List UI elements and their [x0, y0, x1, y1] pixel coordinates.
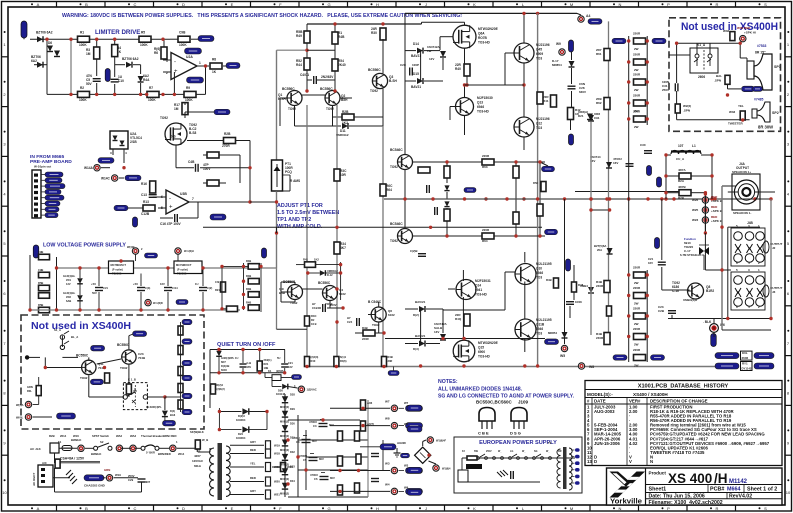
wire right trunk x771 — [770, 199, 772, 319]
capacitor C27 — [566, 302, 574, 305]
wire prim top — [209, 448, 211, 452]
speaker SP2 horn — [757, 102, 770, 122]
wire r77 right — [691, 175, 712, 177]
wire q13 base — [450, 106, 456, 108]
transistor Q19 BC546C — [371, 307, 386, 322]
wire nb top stub — [61, 336, 63, 347]
op-amp U2A — [171, 53, 197, 80]
wire nb v1 — [44, 357, 46, 367]
svg-text:W7: W7 — [404, 401, 409, 405]
svg-text:JUN-15-2006: JUN-15-2006 — [594, 441, 620, 446]
terminal W14C — [112, 175, 118, 181]
mosfet Q6 MTW32N20E — [453, 25, 476, 48]
svg-text:LG: LG — [510, 450, 513, 453]
capacitor C5 — [93, 79, 101, 82]
svg-text:C4: C4 — [296, 440, 300, 444]
svg-text:VER#: VER# — [629, 399, 641, 404]
capacitor group near W3 — [371, 454, 379, 482]
terminal W26 — [702, 197, 708, 203]
terminal W6 BLK — [710, 324, 719, 333]
capacitor C44 — [164, 288, 172, 291]
resistor R48 — [572, 282, 577, 292]
junction top net joins — [306, 263, 342, 275]
svg-text:GRY: GRY — [250, 440, 256, 444]
svg-text:E: E — [231, 506, 234, 511]
wire trunk x591 — [590, 122, 592, 335]
terminal W23 — [702, 217, 708, 223]
wire q4 out — [413, 161, 546, 163]
resistor R2 — [78, 91, 90, 97]
resistor R76 — [604, 333, 610, 345]
svg-text:U2A: U2A — [186, 55, 193, 59]
svg-text:C(2)B: C(2)B — [410, 249, 417, 253]
svg-text:TO3: TO3 — [536, 126, 542, 130]
svg-text:C9B: C9B — [38, 250, 43, 254]
transistor Q2 — [325, 91, 340, 106]
optocoupler U2 — [110, 131, 128, 149]
svg-text:W7: W7 — [385, 399, 390, 403]
svg-text:B-SH: B-SH — [389, 79, 397, 83]
wire w16h dn — [177, 254, 179, 261]
wire q7 emit — [523, 63, 525, 85]
wire lower wires3 — [405, 343, 418, 345]
wire d07 — [218, 350, 220, 352]
net label qt pill — [292, 375, 302, 380]
diode D11 — [342, 123, 348, 129]
fuse F1 — [62, 446, 72, 451]
AC jack box — [50, 443, 59, 453]
svg-text:D14: D14 — [413, 42, 419, 46]
resistor R41b — [305, 262, 316, 268]
svg-text:R64: R64 — [482, 239, 488, 243]
svg-text:220R: 220R — [633, 94, 641, 98]
wire d11 wire — [295, 125, 342, 127]
wire q17 emit — [294, 300, 296, 303]
svg-text:BRN/ RED: BRN/ RED — [163, 434, 177, 438]
wire c8 — [242, 350, 244, 364]
wire q11 emit — [524, 338, 526, 352]
svg-text:PCB#: PCB# — [710, 487, 724, 493]
svg-text:BC556C: BC556C — [320, 87, 333, 91]
wire x516 seg — [515, 162, 517, 166]
transistor Q4 BC546C — [398, 155, 413, 170]
svg-text:XS 400: XS 400 — [668, 471, 712, 486]
svg-text:N: N — [619, 2, 622, 7]
net label in stub — [114, 205, 128, 211]
wire d26q — [272, 386, 282, 388]
wire ml bottom — [222, 308, 226, 310]
svg-text:1N4004: 1N4004 — [236, 418, 246, 422]
junction y210 — [589, 208, 592, 211]
svg-text:A: A — [37, 506, 40, 511]
svg-text:A0(7): A0(7) — [367, 422, 374, 426]
svg-text:BRN/RED: BRN/RED — [158, 452, 171, 456]
svg-text:.SPN: .SPN — [683, 109, 690, 113]
mosfet Q15 MTW32N20E — [453, 340, 475, 362]
wire rect rail2 — [297, 415, 299, 497]
svg-text:100K: 100K — [148, 98, 156, 102]
svg-text:8R 30W: 8R 30W — [758, 125, 773, 130]
svg-text:RY1: RY1 — [742, 362, 748, 366]
wire opto pin3 drop — [112, 149, 114, 155]
terminal W4 — [578, 16, 584, 22]
euro labels row — [462, 450, 562, 453]
svg-text:5U: 5U — [277, 356, 280, 360]
svg-text:W19: W19 — [115, 473, 121, 477]
svg-text:R21: R21 — [264, 362, 269, 366]
svg-text:WARNING: 180VDC IS BETWEEN POW: WARNING: 180VDC IS BETWEEN POWER SUPPLIE… — [62, 13, 462, 19]
svg-text:BAL: BAL — [716, 74, 722, 78]
svg-text:W-1(6)D: W-1(6)D — [153, 301, 163, 305]
wire main bus y199 — [384, 198, 771, 200]
resistor R46 22R — [464, 314, 470, 326]
junction y13 — [536, 12, 539, 15]
title block frame — [607, 468, 783, 505]
box Not used in XS400H (left) — [21, 315, 204, 429]
wire c17 left — [318, 307, 321, 309]
svg-text:BZT06 6A2: BZT06 6A2 — [122, 57, 139, 61]
wire PT1 wiper — [283, 174, 290, 176]
diode D17 MR854 — [569, 61, 575, 67]
resistor R41 22R — [551, 95, 557, 107]
svg-text:R21: R21 — [215, 288, 220, 292]
resistor x516 a — [513, 166, 519, 178]
wire d24 r — [250, 429, 268, 431]
transistor Q1 — [287, 91, 302, 106]
wire x276 to top — [277, 49, 308, 51]
svg-text:NOTES:: NOTES: — [438, 379, 458, 385]
svg-text:W33: W33 — [729, 110, 736, 114]
speaker SP1 horn — [754, 54, 772, 90]
svg-text:6A2: 6A2 — [31, 59, 37, 63]
svg-text:6946: 6946 — [536, 271, 543, 275]
svg-text:Q15: Q15 — [478, 346, 484, 350]
resistor R3 x96 — [94, 47, 100, 59]
svg-text:D28: D28 — [290, 393, 295, 397]
svg-text:1U: 1U — [195, 282, 198, 286]
transistor Q8 MJ21196 — [514, 117, 534, 137]
diode x447 — [444, 185, 449, 190]
net ladder pills nb — [178, 319, 192, 415]
svg-text:2W: 2W — [634, 281, 639, 285]
terminal W9 — [559, 49, 565, 55]
svg-text:UMB4: UMB4 — [580, 284, 588, 288]
wire box relay drop1 — [696, 43, 698, 54]
wire c27 dn — [569, 306, 571, 318]
svg-text:4R7A: 4R7A — [678, 168, 687, 172]
wire mosfet drop — [175, 145, 177, 168]
capacitor C17 — [323, 304, 326, 312]
wire lv rail2 — [56, 257, 58, 310]
wire bridge link2 — [423, 440, 426, 442]
wire k1b v — [164, 397, 166, 410]
title block row lines — [646, 485, 783, 499]
wire gate wire — [440, 36, 453, 38]
svg-text:D(3): D(3) — [413, 347, 419, 351]
wire box left rail2 — [676, 91, 678, 120]
svg-text:R4B: R4B — [246, 301, 251, 305]
wire mosfet top — [422, 21, 465, 23]
svg-text:120VAC: 120VAC — [192, 459, 204, 463]
wire mos top drop — [464, 22, 466, 25]
svg-text:1K: 1K — [212, 70, 217, 74]
junction lower rails — [419, 337, 583, 368]
svg-text:UMR4G2: UMR4G2 — [336, 133, 349, 137]
wire q14 coll — [462, 270, 464, 281]
svg-text:100N: 100N — [575, 300, 582, 304]
wire q7 coll — [523, 13, 525, 43]
wire U3B out to trunk — [250, 201, 277, 203]
junction bridge — [427, 454, 430, 457]
wire q3 drop2 — [382, 45, 384, 73]
wire chassis link2 — [114, 477, 138, 479]
wire r43 left — [355, 332, 363, 334]
svg-text:100K: 100K — [79, 43, 87, 47]
wire mos src — [464, 48, 466, 64]
wire C18 right — [200, 167, 250, 169]
junction output upper joins — [463, 83, 526, 86]
junction PT1 bottom — [275, 231, 278, 234]
svg-text:SPST Switch: SPST Switch — [92, 434, 109, 438]
svg-text:W25: W25 — [692, 208, 699, 212]
svg-text:X1001.PCB_DATABASE_HISTORY: X1001.PCB_DATABASE_HISTORY — [638, 384, 729, 390]
net label nb pill top — [91, 345, 105, 351]
junction vas nodes — [445, 160, 541, 237]
resistor A06 — [361, 400, 366, 410]
svg-text:R5B: R5B — [38, 303, 43, 307]
net label TP1 — [542, 166, 555, 172]
svg-text:BC556C: BC556C — [282, 87, 295, 91]
svg-text:EUROPEAN POWER SUPPLY: EUROPEAN POWER SUPPLY — [479, 440, 557, 446]
svg-text:CSA=8A / 125V: CSA=8A / 125V — [60, 457, 85, 461]
net label pill x264 — [262, 248, 267, 258]
svg-text:MTW32N20E: MTW32N20E — [478, 27, 499, 31]
wire q7 base vert — [504, 53, 506, 85]
svg-text:BC546C: BC546C — [390, 222, 403, 226]
junction ml joins — [220, 265, 262, 311]
svg-text:S2: S2 — [100, 440, 104, 444]
svg-text:6900: 6900 — [478, 350, 485, 354]
svg-text:BR: BR — [558, 450, 562, 453]
resistor R58 — [418, 167, 430, 173]
svg-text:TO3: TO3 — [536, 332, 542, 336]
resistor R43 — [363, 330, 375, 336]
wire right trunk x727 — [727, 227, 729, 318]
svg-text:(2)4(3): (2)4(3) — [311, 355, 319, 359]
svg-text:16V: 16V — [247, 365, 252, 369]
wire chassis link — [103, 477, 106, 479]
net label sp pill — [742, 86, 755, 92]
transistor Q7 MJ21196 — [514, 43, 534, 63]
svg-text:R0L: R0L — [27, 389, 32, 393]
resistor R61 — [604, 49, 610, 61]
transistor Qn1 BC556C — [82, 360, 96, 374]
svg-text:+5U: +5U — [133, 282, 138, 286]
svg-text:J3: J3 — [772, 290, 776, 294]
wire r78 right — [691, 192, 705, 194]
svg-text:B: B — [85, 506, 88, 511]
net label nb wide pill — [57, 413, 76, 419]
contact left stub — [25, 355, 29, 359]
fuse underline — [60, 461, 100, 463]
net label x575 vert — [566, 259, 571, 271]
svg-text:220R: 220R — [633, 327, 641, 331]
svg-text:K: K — [473, 506, 476, 511]
svg-text:D(4): D(4) — [170, 409, 175, 413]
svg-text:R4O: R4O — [311, 314, 316, 318]
connector J4B block — [731, 228, 765, 266]
regulator U4 MC78M15CT — [109, 261, 134, 274]
net label W4 pill — [588, 19, 602, 25]
wire r31 wires — [333, 116, 343, 118]
wire agnd link — [360, 446, 380, 448]
svg-text:220R: 220R — [482, 228, 490, 232]
resistor column lv C9B-R group — [39, 254, 50, 313]
wire y310 seg — [443, 309, 505, 311]
transformer T1 primary — [210, 448, 215, 456]
package TO92 J109 — [511, 408, 527, 422]
wire rect rail1 — [284, 394, 286, 497]
svg-text:1K2: 1K2 — [314, 258, 319, 262]
diode D07 — [216, 351, 222, 357]
wire jack pin2 — [728, 191, 738, 193]
svg-text:W5: W5 — [560, 354, 565, 358]
svg-text:4700U: 4700U — [292, 436, 300, 440]
wire q3 drop — [382, 39, 384, 45]
wire trunk x661 — [661, 199, 663, 260]
svg-text:BL_A: BL_A — [71, 335, 78, 339]
svg-text:6909: 6909 — [536, 52, 543, 56]
svg-text:1K2: 1K2 — [342, 121, 348, 125]
svg-text:MJF15030: MJF15030 — [477, 96, 493, 100]
svg-text:C/14: C/14 — [172, 286, 178, 290]
wire branch y64 — [115, 64, 125, 66]
wire q9 out — [413, 235, 546, 237]
svg-text:BZT06 6A2: BZT06 6A2 — [36, 31, 53, 35]
net label pill v2 — [657, 177, 662, 187]
net label pill v1 — [647, 166, 652, 176]
svg-text:K0L: K0L — [742, 351, 748, 355]
contact BL_A a — [60, 335, 64, 339]
resistor ladder mid — [248, 264, 259, 311]
svg-text:SPEAKON 1-: SPEAKON 1- — [733, 211, 751, 215]
svg-text:Q11B: Q11B — [536, 323, 545, 327]
diode D15 — [417, 78, 423, 84]
capacitor C29 — [138, 479, 146, 482]
label IN FROM M665 PRE-AMP BOARD — [30, 154, 72, 165]
resistor A07 — [361, 421, 366, 431]
wire zener drop — [442, 58, 444, 70]
capacitor C43 — [137, 288, 145, 291]
junction rect nodes — [286, 418, 324, 485]
svg-text:YEL: YEL — [250, 462, 256, 466]
wire q17 loop h — [281, 281, 295, 283]
svg-text:R2B: R2B — [678, 196, 685, 200]
net label pill x571 — [569, 134, 574, 145]
svg-text:W32: W32 — [723, 29, 730, 33]
wire x705 lower — [704, 233, 706, 270]
wire q17q18 link — [303, 288, 323, 290]
euro switch contacts row — [469, 454, 552, 459]
terminal W25 — [702, 207, 708, 213]
svg-text:W8: W8 — [589, 365, 594, 369]
resistor Rm1 — [221, 282, 226, 292]
resistor R5 top — [139, 36, 151, 42]
junction nb1 — [44, 366, 47, 369]
resistor col x447 a — [444, 166, 450, 178]
wire c43 — [140, 274, 142, 287]
svg-text:D-12: D-12 — [327, 273, 333, 277]
wire W14C wire — [119, 177, 124, 179]
wire x661 low — [661, 267, 663, 290]
svg-text:RO7B: RO7B — [478, 36, 488, 40]
wire limiter bottom bus — [47, 93, 206, 95]
diode D23 BAV21 — [419, 341, 425, 347]
trimpot PT1 — [272, 160, 283, 191]
svg-text:R4B: R4B — [546, 278, 552, 282]
transistor Q13 MJF15030 — [456, 98, 474, 116]
svg-text:D S G: D S G — [510, 431, 521, 436]
wire x140 drop — [140, 65, 142, 74]
resistor Rm2 — [227, 306, 238, 312]
svg-text:C-B: C-B — [247, 361, 252, 365]
wire y338 rail — [385, 338, 545, 340]
diode D25 zener — [606, 162, 612, 168]
wire x140 drop2 — [140, 83, 142, 94]
svg-text:220R: 220R — [633, 307, 641, 311]
junction right trunks — [720, 225, 772, 320]
svg-text:+5U: +5U — [91, 282, 96, 286]
svg-text:W-10pin out: W-10pin out — [34, 165, 51, 169]
wire mid net — [446, 162, 448, 166]
svg-text:D26: D26 — [278, 389, 283, 393]
svg-text:2K40: 2K40 — [338, 63, 346, 67]
wire c23 drop — [671, 315, 673, 319]
svg-text:100P: 100P — [412, 63, 419, 67]
svg-text:J: J — [425, 2, 427, 7]
svg-text:G: G — [327, 506, 330, 511]
table column separators — [592, 398, 647, 466]
AC RECT box — [38, 465, 53, 487]
resistor W32 — [730, 32, 735, 41]
wire jack wire top — [722, 185, 736, 187]
capacitor C10 — [111, 79, 119, 82]
capacitor C26 — [410, 68, 413, 76]
wire d11 wire2 — [349, 125, 383, 127]
svg-text:250V: 250V — [486, 450, 492, 453]
svg-text:16V: 16V — [613, 161, 618, 165]
wire c41 — [98, 268, 100, 286]
resistor R4 x114 — [112, 45, 118, 57]
svg-text:TO3-HD: TO3-HD — [477, 110, 490, 114]
diode D12b — [320, 270, 326, 276]
op-amp U3B — [166, 190, 189, 214]
resistor R13 in — [143, 205, 155, 211]
wire secondary bus y191 — [575, 191, 680, 193]
svg-text:AUG-2003: AUG-2003 — [594, 409, 615, 414]
wire nb emit concat — [89, 396, 104, 398]
resistor R8 — [210, 63, 222, 69]
svg-text:Q12: Q12 — [536, 122, 542, 126]
svg-text:D15: D15 — [413, 72, 419, 76]
wire y264 net2 — [316, 264, 341, 266]
wire qn2 emit — [128, 365, 130, 385]
transistor Q17 BC556C — [288, 285, 303, 300]
svg-text:+SPK B: +SPK B — [711, 199, 723, 203]
resistor R40 22R — [464, 64, 470, 76]
svg-text:W14C: W14C — [101, 177, 111, 181]
svg-text:2N2/63V: 2N2/63V — [321, 75, 334, 79]
